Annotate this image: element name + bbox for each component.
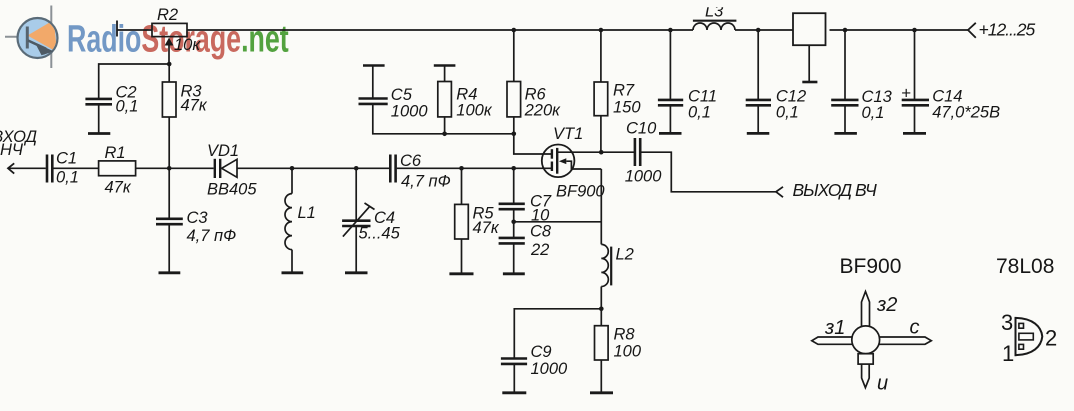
svg-text:ВЫХОД ВЧ: ВЫХОД ВЧ: [793, 180, 878, 200]
capacitor C1: [47, 150, 79, 187]
node C7 tap: [511, 166, 516, 171]
wire C1 to R1: [53, 167, 98, 169]
resistor R2 (trimmer): [152, 6, 201, 54]
wire R2 wiper down to node: [168, 45, 170, 65]
node C13 rail junction: [843, 28, 848, 33]
ground below C14: [903, 132, 926, 135]
svg-text:VT1: VT1: [553, 125, 583, 143]
svg-text:L3: L3: [705, 3, 724, 21]
svg-text:L1: L1: [298, 204, 316, 222]
svg-text:2: 2: [1045, 326, 1057, 351]
wire bus to VT1 source drop: [514, 221, 602, 223]
resistor R3: [162, 64, 207, 168]
wire VD1 to L1/C4/C6: [237, 167, 389, 169]
terminal +12...25: [968, 20, 1036, 40]
node R5 tap: [459, 166, 464, 171]
node drain junction: [599, 150, 604, 155]
wire junction to C9: [514, 309, 601, 358]
svg-text:4,7 пФ: 4,7 пФ: [401, 173, 451, 191]
capacitor C14 (electrolytic): [901, 30, 1000, 133]
svg-text:R2: R2: [157, 6, 178, 24]
capacitor C6: [390, 152, 450, 191]
svg-text:R1: R1: [105, 144, 126, 162]
svg-text:47к: 47к: [181, 97, 208, 115]
node C4 tap: [354, 166, 359, 171]
svg-text:3: 3: [1001, 310, 1013, 335]
svg-text:C1: C1: [56, 150, 77, 168]
svg-text:L2: L2: [616, 246, 634, 264]
wire C10 to output: [641, 152, 776, 192]
capacitor C11: [658, 30, 717, 133]
svg-text:0,1: 0,1: [56, 169, 79, 187]
svg-text:22: 22: [530, 241, 549, 259]
capacitor C8: [499, 222, 552, 273]
resistor R5: [455, 168, 500, 273]
resistor R4: [434, 66, 493, 134]
svg-text:з1: з1: [824, 317, 845, 339]
svg-text:C10: C10: [626, 120, 657, 138]
inductor L1: [285, 168, 316, 272]
ground below C3: [159, 271, 181, 274]
capacitor C9: [501, 343, 568, 392]
terminal ВЫХОД ВЧ: [776, 180, 877, 200]
node R6 bus junction: [512, 132, 517, 137]
ground below C12: [747, 132, 770, 135]
resistor R8: [595, 326, 642, 393]
node C11 rail junction: [668, 28, 673, 33]
wire top supply rail: [117, 29, 968, 31]
BF900 package pinout: [812, 292, 932, 388]
svg-text:1000: 1000: [625, 168, 663, 186]
voltage regulator DA1 78L08: [793, 13, 826, 81]
svg-text:R8: R8: [614, 326, 636, 344]
svg-text:R7: R7: [613, 82, 635, 100]
resistor R6: [507, 30, 561, 134]
svg-text:0,1: 0,1: [688, 104, 711, 122]
node L1 tap: [290, 166, 295, 171]
ground below C4: [345, 271, 368, 274]
ground below C9: [502, 391, 526, 394]
svg-text:150: 150: [613, 99, 641, 117]
capacitor C2: [85, 84, 138, 133]
svg-text:и: и: [877, 373, 888, 395]
capacitor C3: [156, 168, 236, 272]
node C7/C8 bus junction: [511, 220, 516, 225]
svg-text:+: +: [901, 84, 911, 103]
svg-text:100: 100: [614, 343, 642, 361]
svg-text:10к: 10к: [174, 36, 201, 54]
svg-text:с: с: [910, 317, 920, 339]
wire gate2 bias: [514, 134, 552, 154]
svg-text:47к: 47к: [105, 179, 132, 197]
svg-text:C5: C5: [391, 86, 413, 104]
svg-text:НЧ: НЧ: [0, 141, 24, 159]
capacitor C10: [625, 120, 663, 186]
svg-text:+12...25: +12...25: [979, 20, 1036, 40]
terminal input ВХОД НЧ: [0, 128, 37, 174]
svg-text:1000: 1000: [391, 103, 429, 121]
svg-text:BB405: BB405: [207, 181, 257, 199]
resistor R1: [99, 144, 136, 197]
svg-text:47к: 47к: [473, 219, 500, 237]
svg-text:1: 1: [1002, 341, 1014, 366]
svg-text:0,1: 0,1: [116, 98, 139, 116]
svg-text:0,1: 0,1: [776, 104, 799, 122]
svg-text:C3: C3: [187, 209, 209, 227]
varicap diode VD1 BB405: [207, 142, 257, 199]
logo text RadioStorage.net: [67, 17, 289, 60]
ground below C2: [88, 132, 110, 135]
capacitor C5: [359, 66, 514, 134]
capacitor C13: [831, 30, 892, 133]
svg-text:BF900: BF900: [840, 255, 902, 278]
ground below R8: [590, 391, 613, 394]
svg-text:C8: C8: [530, 223, 552, 241]
inductor L3: [693, 3, 737, 31]
wire VT1 source drop: [600, 169, 602, 326]
ground below C11: [659, 132, 682, 135]
ground below R5: [449, 272, 473, 275]
svg-text:C9: C9: [531, 343, 552, 361]
svg-text:5...45: 5...45: [359, 225, 401, 243]
svg-text:1000: 1000: [531, 360, 569, 378]
wire R1 to VD1: [136, 167, 214, 169]
node R6 rail junction: [512, 28, 517, 33]
wire rail start tick: [116, 21, 118, 37]
variable capacitor C4: [342, 168, 401, 272]
svg-text:C6: C6: [400, 152, 422, 170]
node R3/C2 junction: [167, 62, 172, 67]
node C12 rail junction: [756, 28, 761, 33]
node R4 bus junction: [442, 132, 447, 137]
svg-text:78L08: 78L08: [996, 255, 1054, 278]
capacitor C7: [499, 168, 552, 224]
wire node to C2: [99, 64, 170, 98]
svg-text:з2: з2: [876, 294, 897, 316]
svg-text:47,0*25В: 47,0*25В: [932, 104, 1000, 122]
78L08 package outline: [1016, 318, 1043, 355]
logo icon: [5, 6, 58, 69]
svg-text:0,1: 0,1: [862, 104, 885, 122]
ground below L1: [282, 271, 304, 274]
svg-text:100к: 100к: [456, 102, 493, 120]
node R7 rail junction: [599, 28, 604, 33]
transistor VT1 BF900: [542, 125, 606, 201]
resistor R7: [594, 30, 641, 152]
capacitor C12: [746, 30, 806, 133]
node C3/R3 tap: [167, 166, 172, 171]
node L2/R8/C9 junction: [599, 307, 604, 312]
svg-text:4,7 пФ: 4,7 пФ: [187, 227, 237, 245]
svg-text:220к: 220к: [524, 102, 562, 120]
wire input to C1: [8, 167, 46, 169]
ground below regulator: [802, 81, 817, 84]
ground below C13: [834, 132, 857, 135]
svg-text:VD1: VD1: [207, 142, 239, 160]
wire C6 to VT1 gate1: [397, 167, 552, 169]
inductor L2: [601, 244, 634, 286]
node C14 rail junction: [912, 28, 917, 33]
ground below C8: [503, 272, 525, 275]
svg-text:BF900: BF900: [556, 183, 605, 201]
wire VT1 drain line: [557, 151, 634, 153]
